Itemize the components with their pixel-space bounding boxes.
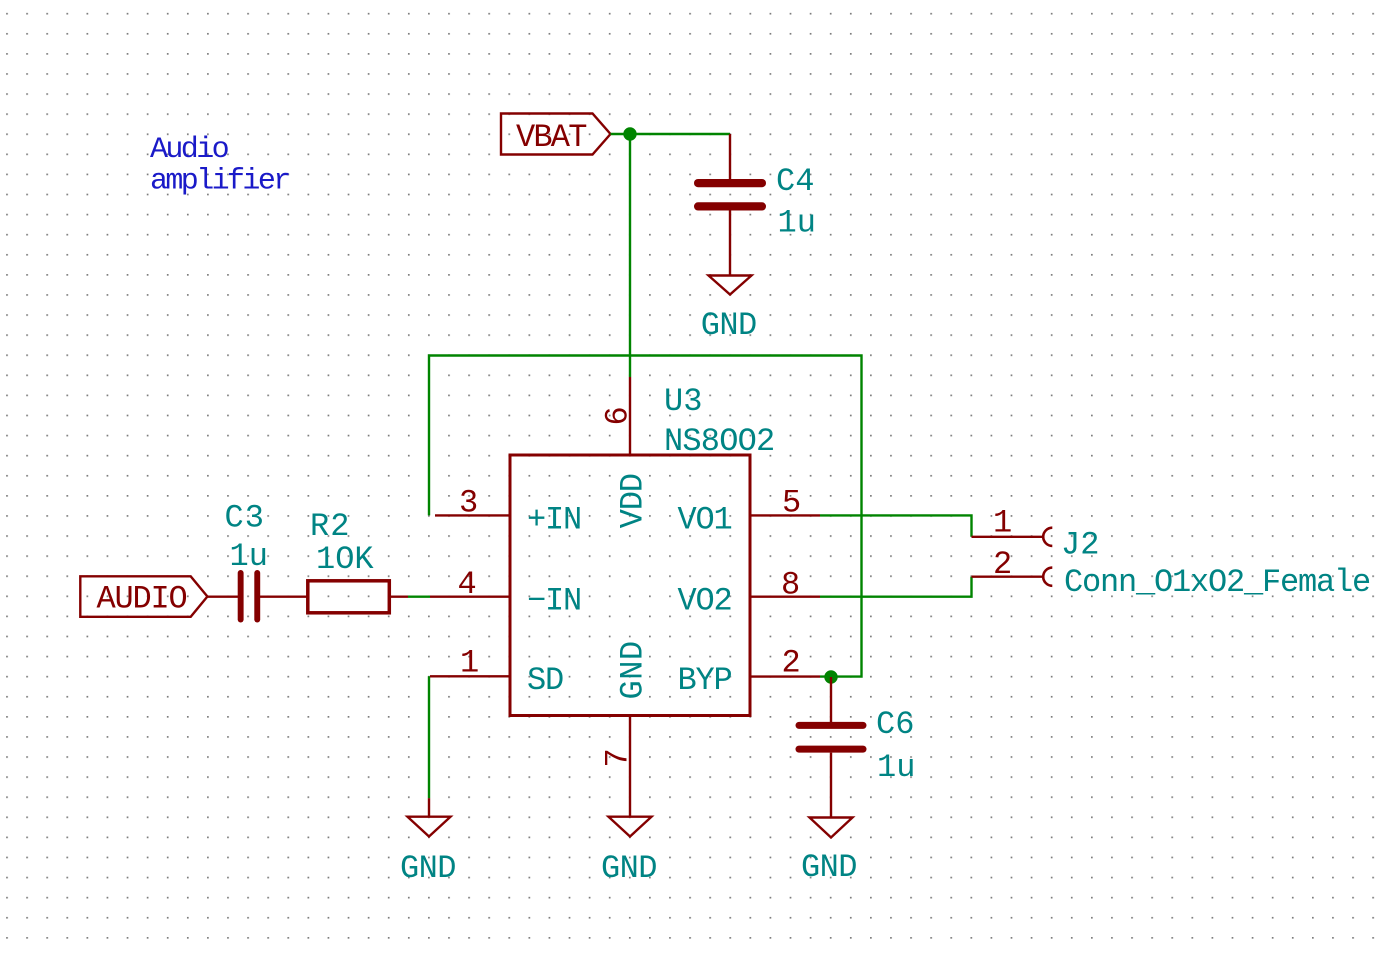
svg-text:1: 1 — [993, 505, 1011, 542]
svg-text:U3: U3 — [664, 383, 702, 420]
svg-text:2: 2 — [782, 645, 800, 682]
ground symbol left (SD net) — [408, 798, 451, 836]
svg-text:1: 1 — [460, 645, 478, 682]
svg-text:SD: SD — [527, 662, 563, 699]
svg-text:VBAT: VBAT — [516, 119, 586, 156]
svg-text:R2: R2 — [310, 508, 350, 545]
svg-text:1u: 1u — [778, 205, 816, 242]
junction node BYP — [824, 670, 837, 683]
wire feedback loop pin3 to BYP net — [429, 356, 862, 677]
ground symbol right (C6) — [810, 818, 853, 838]
svg-text:5: 5 — [782, 485, 800, 522]
wire AUDIO to C3 — [207, 596, 238, 598]
svg-text:BYP: BYP — [678, 662, 732, 699]
wire VBAT to U3 VDD — [629, 134, 631, 377]
wire VO2 to J2 pin 2 — [820, 577, 972, 597]
wire SD to ground — [428, 676, 430, 798]
resistor R2 — [308, 581, 390, 613]
svg-text:C4: C4 — [776, 163, 814, 200]
svg-text:4: 4 — [458, 566, 476, 603]
pin 5 wire (VO1) — [750, 514, 820, 516]
pin 1 wire (SD) — [430, 675, 510, 677]
svg-text:GND: GND — [615, 640, 652, 699]
wire VO1 to J2 pin 1 — [820, 515, 972, 536]
svg-text:NS8OO2: NS8OO2 — [664, 423, 774, 460]
pin 6 wire (VDD) — [629, 377, 631, 455]
svg-text:+IN: +IN — [527, 501, 581, 538]
svg-text:8: 8 — [781, 566, 799, 603]
svg-text:Conn_O1xO2_Female: Conn_O1xO2_Female — [1064, 564, 1370, 601]
junction node VBAT — [623, 127, 636, 140]
svg-text:VDD: VDD — [615, 474, 652, 528]
svg-text:GND: GND — [801, 849, 857, 886]
svg-text:7: 7 — [600, 749, 637, 767]
svg-text:amplifier: amplifier — [150, 165, 289, 199]
svg-text:AUDIO: AUDIO — [97, 581, 187, 618]
svg-text:GND: GND — [601, 850, 657, 887]
svg-text:VO1: VO1 — [678, 501, 732, 538]
svg-text:Audio: Audio — [150, 133, 229, 167]
pin 3 wire (+IN) — [435, 514, 510, 516]
svg-text:GND: GND — [400, 850, 456, 887]
connector J2 pin 1 — [972, 528, 1053, 546]
ground symbol under C4 — [709, 276, 752, 295]
ground symbol center (pin 7) — [609, 817, 652, 837]
svg-text:1u: 1u — [877, 749, 915, 786]
svg-text:−IN: −IN — [527, 582, 581, 619]
svg-text:1u: 1u — [230, 538, 268, 575]
wire R2 to pin 4 — [408, 596, 430, 598]
power flag VBAT — [501, 114, 611, 155]
svg-text:VO2: VO2 — [678, 582, 732, 619]
pin 7 wire (GND) — [629, 716, 631, 817]
svg-text:6: 6 — [600, 407, 637, 425]
pin 2 wire (BYP) — [750, 675, 820, 677]
text note "Audio amplifier" — [150, 133, 289, 199]
wire R2 right pin — [389, 596, 408, 598]
svg-text:3: 3 — [459, 485, 477, 522]
wire C3 to R2 — [260, 596, 307, 598]
pin 8 wire (VO2) — [750, 596, 820, 598]
capacitor C4 — [694, 134, 766, 276]
capacitor C3 — [238, 570, 261, 623]
net label flag AUDIO — [80, 576, 207, 617]
capacitor C6 — [796, 677, 867, 818]
svg-text:1OK: 1OK — [316, 541, 374, 578]
svg-text:2: 2 — [993, 546, 1011, 583]
svg-text:J2: J2 — [1061, 527, 1099, 564]
pin 4 wire (-IN) — [430, 596, 510, 598]
connector J2 pin 2 — [972, 568, 1053, 586]
svg-text:C3: C3 — [225, 500, 265, 537]
op-amp IC U3 body — [510, 455, 750, 716]
svg-text:GND: GND — [701, 307, 757, 344]
wire VBAT to C4 — [611, 133, 731, 135]
svg-text:C6: C6 — [876, 706, 914, 743]
